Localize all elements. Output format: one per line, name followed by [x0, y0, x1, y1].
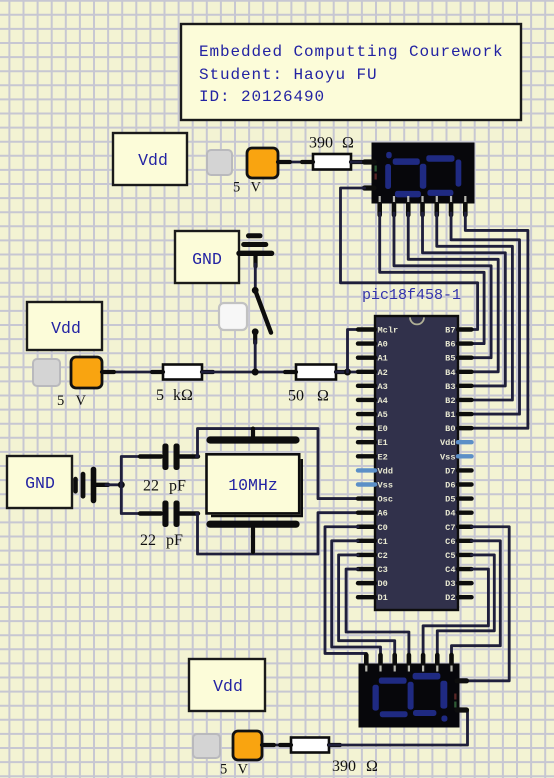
U1 right pin B2	[458, 398, 472, 402]
U1 right pin B6	[458, 341, 472, 345]
wire DS1 pin6 to B1	[451, 213, 519, 414]
U1 right pin C7	[458, 525, 472, 529]
ground symbol (switch)	[239, 251, 272, 256]
svg-text:C6: C6	[445, 537, 455, 547]
power label box Vdd (left)	[27, 302, 102, 350]
U1 right pin B5	[458, 355, 472, 359]
wire DS1 pin4 to B3	[423, 213, 506, 386]
U1 right pin B1	[458, 412, 472, 416]
svg-text:B5: B5	[445, 354, 455, 364]
svg-text:C7: C7	[445, 523, 455, 533]
resistor R2 5k	[163, 365, 202, 380]
wire C2 to DS2 pin3	[339, 555, 395, 665]
7seg DS2 right stub lower	[457, 707, 467, 712]
resistor R3 50	[296, 365, 336, 380]
pushbutton square (left, gray)	[33, 359, 60, 386]
resistor R4 390	[291, 738, 329, 753]
U1 left pin C0	[358, 525, 375, 529]
wire DS1 pin3 to B4	[408, 213, 498, 372]
wire ground to switch	[254, 264, 257, 287]
U1 right pin B3	[458, 384, 472, 388]
svg-text:390: 390	[332, 758, 356, 775]
power terminal 5V (bottom, orange)	[233, 731, 262, 760]
7seg DS1 left stub upper	[365, 159, 375, 164]
wire C5 to DS2 pin6	[437, 555, 494, 665]
7seg DS2 polarity marks	[454, 702, 456, 708]
U1 left pin D0	[358, 581, 375, 585]
U1 right pin B7	[458, 327, 472, 331]
svg-text:A3: A3	[378, 382, 388, 392]
svg-text:D5: D5	[445, 495, 455, 505]
wire DS1 common stub to B7	[341, 188, 478, 330]
7seg DS2 seg a2	[379, 678, 407, 684]
7seg DS1 seg a2	[426, 155, 454, 162]
svg-text:A6: A6	[378, 509, 388, 519]
svg-text:A2: A2	[378, 368, 388, 378]
svg-text:C3: C3	[378, 565, 388, 575]
U1 right pin Vdd	[458, 440, 472, 444]
svg-text:5: 5	[233, 180, 240, 196]
7seg DS2 top pins	[364, 655, 369, 668]
svg-text:B2: B2	[445, 396, 455, 406]
svg-text:D0: D0	[378, 579, 388, 589]
wire DS1 pin2 to B5	[394, 213, 491, 358]
7seg DS2 seg b2	[373, 685, 379, 711]
switch SW1	[219, 303, 247, 330]
svg-text:A4: A4	[378, 396, 388, 406]
svg-text:E0: E0	[378, 424, 388, 434]
svg-text:C0: C0	[378, 523, 388, 533]
U1 left pin E2	[358, 454, 375, 458]
svg-text:5: 5	[57, 393, 64, 409]
U1 left pin Mclr	[358, 327, 375, 331]
U1 left pin A3	[358, 384, 375, 388]
svg-text:B1: B1	[445, 410, 455, 420]
U1 left pin A4	[358, 398, 375, 402]
ground symbol (crystal)	[73, 479, 78, 491]
U1 left pin A2	[358, 370, 375, 374]
U1 left pin Vss	[358, 482, 375, 486]
U1 left pin Vdd	[358, 468, 375, 472]
svg-text:390: 390	[309, 135, 333, 152]
svg-text:Ω: Ω	[342, 135, 354, 152]
7seg DS2 seg f	[440, 681, 447, 709]
svg-text:Vdd: Vdd	[378, 466, 393, 476]
wire R4 to DS2 stub	[329, 710, 468, 745]
wire R1 to display	[351, 161, 364, 164]
wire C3 to DS2 pin4	[346, 569, 409, 665]
wire C2 to A6	[197, 513, 358, 554]
junction switch/5V line	[252, 369, 259, 376]
7seg DS2 seg b	[408, 682, 414, 710]
svg-text:22: 22	[143, 478, 159, 495]
svg-text:Ω: Ω	[317, 388, 329, 405]
microcontroller U1 body	[375, 316, 458, 610]
svg-text:Vdd: Vdd	[138, 151, 168, 170]
svg-text:V: V	[238, 762, 249, 778]
resistor R1 390	[313, 154, 351, 170]
power terminal 5V (top, orange)	[247, 148, 278, 178]
power label box Vdd (top)	[113, 133, 187, 185]
svg-text:Ω: Ω	[366, 758, 378, 775]
svg-text:5: 5	[220, 762, 227, 778]
U1 left pin A1	[358, 355, 375, 359]
U1 right pin D2	[458, 595, 472, 599]
svg-text:5: 5	[156, 387, 164, 404]
7seg display DS1 body	[372, 143, 474, 203]
svg-text:Vdd: Vdd	[213, 677, 243, 696]
svg-text:kΩ: kΩ	[173, 387, 193, 404]
svg-text:E1: E1	[378, 438, 388, 448]
svg-text:B6: B6	[445, 340, 455, 350]
7seg DS1 seg f	[385, 164, 391, 189]
wire 5V to R1	[278, 161, 313, 164]
svg-text:B7: B7	[445, 326, 455, 336]
svg-text:pF: pF	[166, 532, 183, 549]
svg-text:10MHz: 10MHz	[228, 476, 278, 495]
svg-text:C2: C2	[378, 551, 388, 561]
wire switch to 5V line	[254, 341, 257, 372]
wire C7 to DS2 common stub	[466, 527, 509, 681]
svg-text:pic18f458-1: pic18f458-1	[362, 287, 461, 304]
U1 left pin E0	[358, 426, 375, 430]
wire DS1 pin1 to B6	[380, 213, 484, 344]
svg-text:C5: C5	[445, 551, 455, 561]
7seg DS2 right stub upper	[457, 678, 467, 683]
U1 right pin B0	[458, 426, 472, 430]
svg-text:pF: pF	[169, 478, 186, 495]
wire R3 to A2 pin	[336, 371, 357, 374]
wire junction down to C2	[121, 485, 142, 514]
svg-text:D6: D6	[445, 480, 455, 490]
title box	[181, 24, 521, 120]
svg-text:Mclr: Mclr	[378, 326, 399, 336]
svg-text:ID: 20126490: ID: 20126490	[199, 88, 325, 106]
svg-text:B0: B0	[445, 424, 455, 434]
svg-text:B4: B4	[445, 368, 455, 378]
U1 right pin Vss	[458, 454, 472, 458]
svg-text:Embedded Computting Courework: Embedded Computting Courework	[199, 43, 504, 61]
junction caps	[118, 481, 125, 488]
wire C1 to Osc	[197, 429, 358, 499]
svg-text:Vss: Vss	[378, 480, 393, 490]
wire C6 to DS2 pin7	[452, 541, 501, 665]
wire C0 to DS2 pin1	[325, 527, 366, 665]
svg-text:C1: C1	[378, 537, 388, 547]
U1 right pin D7	[458, 468, 472, 472]
7seg DS2 seg a	[413, 673, 441, 680]
svg-text:50: 50	[288, 388, 304, 405]
svg-text:B3: B3	[445, 382, 455, 392]
U1 left pin A5	[358, 412, 375, 416]
U1 left pin Osc	[358, 496, 375, 500]
svg-text:D7: D7	[445, 466, 455, 476]
U1 left pin C2	[358, 553, 375, 557]
svg-text:Vdd: Vdd	[51, 319, 81, 338]
U1 right pin C6	[458, 539, 472, 543]
U1 right pin D5	[458, 496, 472, 500]
U1 left pin E1	[358, 440, 375, 444]
wire 5V to R2	[102, 371, 163, 374]
U1 right pin D6	[458, 482, 472, 486]
7seg DS1 polarity marks	[375, 166, 377, 172]
U1 right pin D4	[458, 510, 472, 514]
svg-text:V: V	[251, 180, 262, 196]
junction Mclr branch	[344, 369, 351, 376]
terminal label box GND (switch)	[175, 231, 239, 283]
wire DS1 pin7 to B0	[465, 213, 528, 428]
svg-text:E2: E2	[378, 452, 388, 462]
7seg display DS2 body	[359, 664, 459, 727]
svg-text:A1: A1	[378, 354, 388, 364]
wire junction up to C1	[121, 457, 142, 485]
U1 left pin C1	[358, 539, 375, 543]
wire R2 to R3	[202, 371, 296, 374]
svg-text:GND: GND	[25, 474, 55, 493]
svg-text:D3: D3	[445, 579, 455, 589]
7seg DS1 seg b	[420, 164, 427, 189]
power label box Vdd (bottom)	[189, 659, 265, 711]
svg-text:A0: A0	[378, 340, 388, 350]
pushbutton square (bottom, gray)	[193, 734, 220, 758]
wire C4 to DS2 pin5	[423, 569, 488, 665]
svg-text:D4: D4	[445, 509, 455, 519]
7seg DS1 seg d	[395, 191, 421, 198]
capacitor C2 22pF	[140, 511, 161, 515]
U1 right pin D3	[458, 581, 472, 585]
crystal X1 10MHz	[210, 436, 296, 443]
capacitor C1 22pF	[140, 454, 161, 458]
U1 left pin D1	[358, 595, 375, 599]
svg-text:A5: A5	[378, 410, 388, 420]
svg-text:GND: GND	[192, 250, 222, 269]
7seg DS2 seg d2	[380, 711, 408, 717]
svg-text:D1: D1	[378, 593, 388, 603]
pushbutton square (top, gray)	[207, 150, 232, 175]
7seg DS2 dot	[441, 716, 447, 722]
svg-text:Vss: Vss	[440, 452, 455, 462]
U1 right pin B4	[458, 370, 472, 374]
U1 right pin C5	[458, 553, 472, 557]
U1 left pin C3	[358, 567, 375, 571]
U1 right pin C4	[458, 567, 472, 571]
wire ground to cap junction	[106, 483, 121, 486]
svg-text:Student: Haoyu FU: Student: Haoyu FU	[199, 66, 378, 84]
7seg DS2 seg d	[413, 710, 436, 716]
wire 5V to R4	[262, 744, 291, 747]
7seg DS1 dot	[386, 152, 392, 159]
wire DS1 pin5 to B2	[437, 213, 513, 400]
7seg DS1 left stub lower	[365, 185, 375, 190]
7seg DS1 seg d2	[427, 190, 453, 196]
7seg DS1 seg a	[393, 158, 420, 165]
power terminal 5V (left, orange)	[71, 357, 102, 388]
7seg DS1 seg b2	[456, 160, 462, 187]
svg-text:Vdd: Vdd	[440, 438, 455, 448]
svg-text:22: 22	[140, 532, 156, 549]
wire C1 to DS2 pin2	[332, 541, 381, 665]
U1 left pin A0	[358, 341, 375, 345]
U1 left pin A6	[358, 510, 375, 514]
svg-text:C4: C4	[445, 565, 455, 575]
svg-text:V: V	[76, 393, 87, 409]
terminal label box GND (crystal)	[7, 456, 72, 508]
svg-text:Osc: Osc	[378, 495, 393, 505]
svg-text:D2: D2	[445, 593, 455, 603]
7seg DS1 bottom pins	[377, 202, 382, 215]
wire junction to Mclr	[348, 330, 358, 373]
